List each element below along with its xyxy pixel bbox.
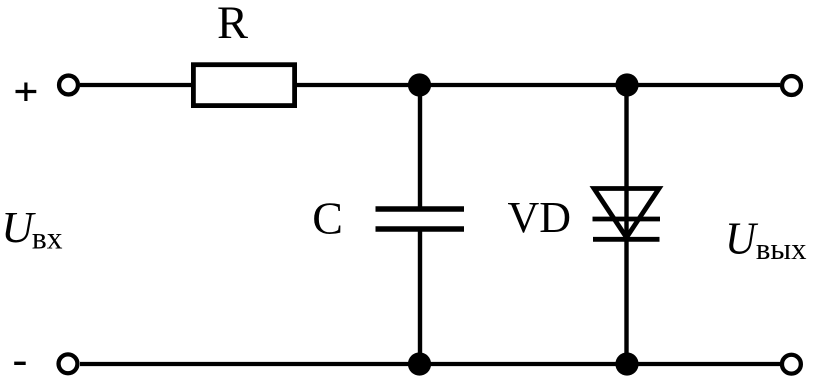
svg-text:VD: VD <box>508 193 572 242</box>
svg-text:вых: вых <box>756 232 807 266</box>
svg-text:R: R <box>217 0 248 49</box>
svg-text:C: C <box>312 192 343 243</box>
svg-text:U: U <box>725 212 759 264</box>
svg-text:вх: вх <box>32 220 63 255</box>
